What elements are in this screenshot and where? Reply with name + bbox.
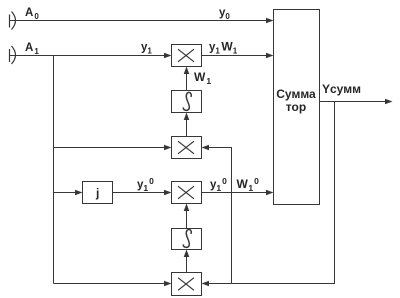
multiplier M1 bbox=[172, 45, 202, 67]
wire summator output bbox=[320, 99, 393, 105]
wire A1 branch bottom to multiplier M4 bbox=[54, 281, 172, 287]
wire integrator I2 to multiplier M3 bbox=[184, 204, 190, 229]
wire W1: integrator I1 to multiplier M1 bbox=[184, 67, 190, 91]
wire multiplier M2 to integrator I1 bbox=[184, 113, 190, 137]
svg-text:y1W1: y1W1 bbox=[209, 40, 238, 56]
wire A1 branch to multiplier M2 bbox=[54, 145, 172, 151]
wire A1 input to multiplier M1 bbox=[10, 53, 172, 59]
wire M1 output to summator bbox=[202, 53, 274, 59]
input terminal A1 bbox=[10, 46, 16, 64]
wire multiplier M4 to integrator I2 bbox=[184, 250, 190, 273]
svg-text:W1: W1 bbox=[194, 70, 211, 86]
svg-text:y1: y1 bbox=[141, 42, 152, 56]
wire A0 input to summator bbox=[10, 18, 274, 24]
svg-text:y10: y10 bbox=[137, 176, 154, 193]
integrator I1 bbox=[172, 91, 202, 113]
svg-text:A0: A0 bbox=[25, 7, 39, 21]
wire feedback to multiplier M2 bbox=[202, 145, 232, 284]
svg-text:W10: W10 bbox=[237, 176, 260, 193]
block j bbox=[83, 182, 113, 204]
wire M3 output to summator bbox=[202, 190, 274, 196]
svg-text:Сумма: Сумма bbox=[276, 87, 316, 101]
multiplier M3 bbox=[172, 182, 202, 204]
wire feedback from output to multiplier M4 bbox=[202, 102, 335, 287]
svg-text:y10: y10 bbox=[210, 176, 227, 193]
svg-text:A1: A1 bbox=[25, 42, 39, 56]
input terminal A0 bbox=[10, 12, 16, 30]
svg-text:y0: y0 bbox=[219, 7, 230, 21]
summator block bbox=[274, 10, 320, 205]
svg-text:тор: тор bbox=[286, 100, 306, 114]
integrator I2 bbox=[172, 229, 202, 250]
wire branch A1 vertical bbox=[53, 56, 55, 284]
wire block j to multiplier M3 bbox=[113, 190, 172, 196]
svg-text:j: j bbox=[95, 186, 99, 200]
multiplier M4 bbox=[172, 273, 202, 296]
wire A1 branch to block j bbox=[54, 190, 83, 196]
svg-text:Yсумм: Yсумм bbox=[322, 82, 361, 96]
multiplier M2 bbox=[172, 137, 202, 159]
